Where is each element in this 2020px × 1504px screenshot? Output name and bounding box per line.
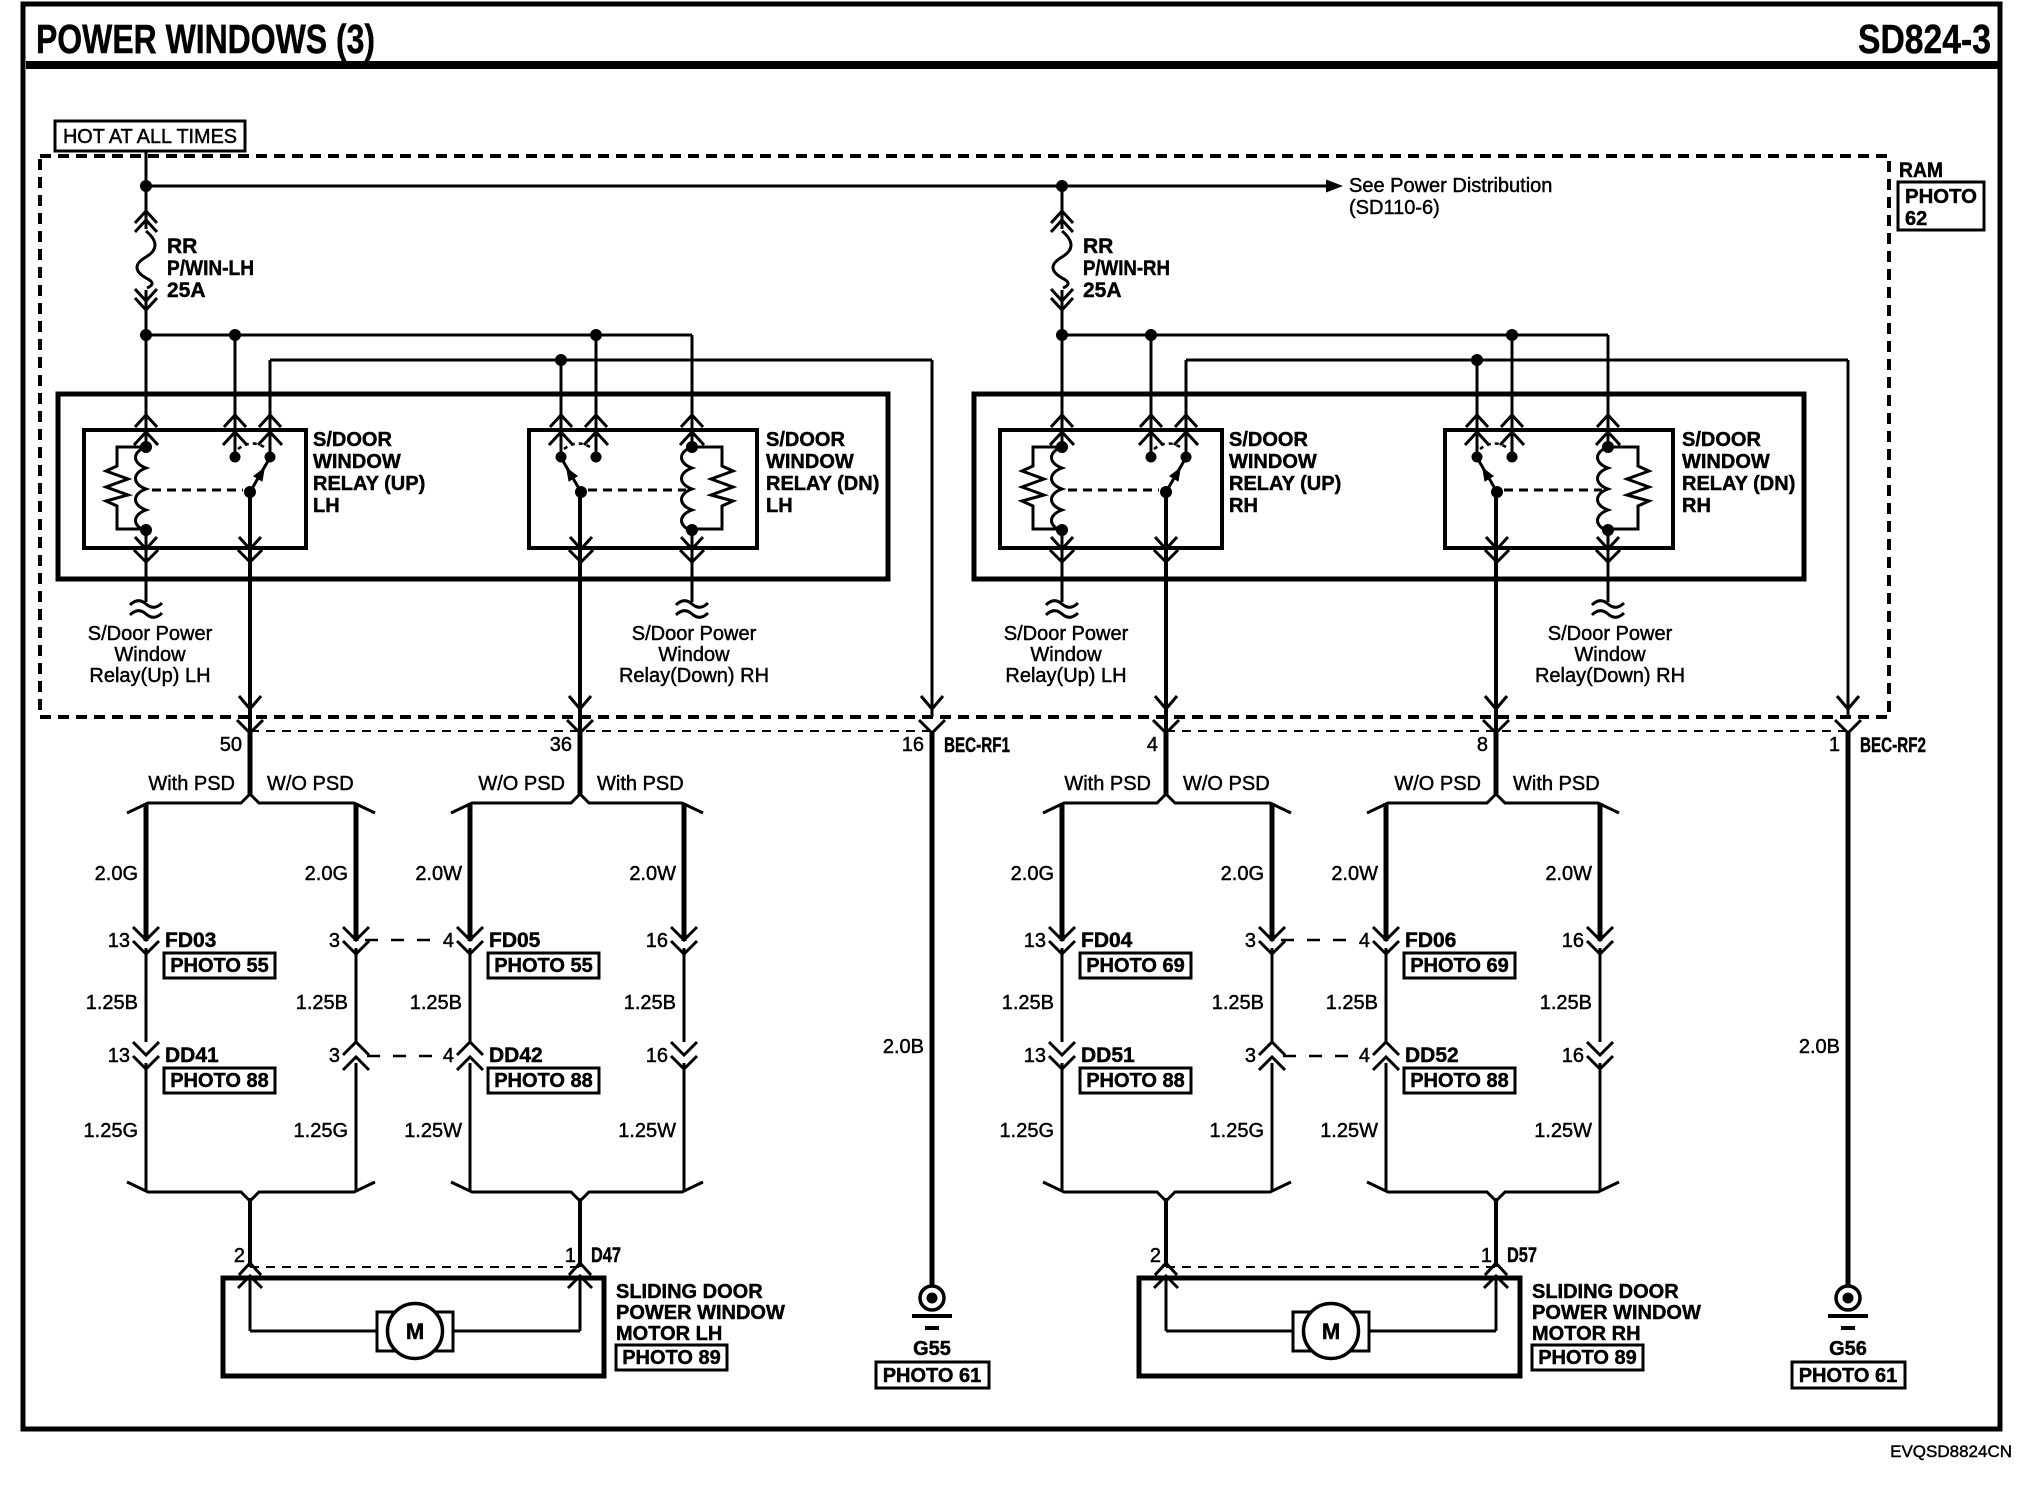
svg-text:2.0W: 2.0W — [629, 863, 676, 885]
svg-text:DD41: DD41 — [165, 1044, 219, 1067]
connector pin 16 — [1562, 927, 1613, 954]
connector mating dashed link (DD row) — [1283, 1055, 1357, 1058]
wire 1.25W (left) — [1320, 1063, 1386, 1192]
svg-text:EVQSD8824CN: EVQSD8824CN — [1890, 1442, 2012, 1461]
svg-text:DD52: DD52 — [1405, 1044, 1459, 1067]
svg-text:P/WIN-LH: P/WIN-LH — [167, 257, 254, 280]
wire 1.25G (right) — [1210, 1063, 1272, 1192]
svg-text:POWER WINDOWS (3): POWER WINDOWS (3) — [36, 16, 375, 62]
svg-text:W/O PSD: W/O PSD — [267, 773, 354, 795]
svg-text:BEC-RF1: BEC-RF1 — [944, 734, 1010, 757]
photo ref PHOTO 61 — [1792, 1362, 1905, 1388]
wire 2.0W (left) — [1331, 803, 1386, 941]
svg-text:M: M — [1322, 1319, 1340, 1344]
photo ref PHOTO 88 — [488, 1068, 599, 1093]
wire to relay contacts RH — [1151, 335, 1512, 457]
switch fixed contacts — [1146, 444, 1192, 463]
svg-text:D47: D47 — [591, 1244, 621, 1267]
svg-text:With PSD: With PSD — [148, 773, 235, 795]
photo ref PHOTO 62 — [1898, 182, 1984, 230]
svg-text:S/DOOR: S/DOOR — [1229, 429, 1308, 451]
svg-text:WINDOW: WINDOW — [1682, 451, 1770, 473]
svg-text:FD03: FD03 — [165, 929, 216, 952]
wire 1.25B (left) — [86, 948, 146, 1042]
photo ref PHOTO 61 — [876, 1362, 989, 1388]
svg-text:S/Door Power: S/Door Power — [632, 623, 757, 645]
relay label — [1229, 429, 1341, 517]
connector FD06 pin 4 — [1359, 927, 1456, 954]
connector pin 16 (2) — [1562, 1042, 1613, 1069]
svg-text:4: 4 — [1147, 734, 1158, 756]
svg-text:PHOTO 69: PHOTO 69 — [1410, 955, 1509, 977]
wire 1.25B (right) — [1212, 948, 1272, 1042]
svg-text:2.0W: 2.0W — [415, 863, 462, 885]
junction — [140, 329, 602, 341]
coil ground squiggle (DN relay) — [1592, 530, 1624, 617]
svg-text:2.0G: 2.0G — [305, 863, 348, 885]
svg-text:PHOTO 69: PHOTO 69 — [1086, 955, 1185, 977]
svg-text:2.0B: 2.0B — [883, 1036, 924, 1058]
junction — [1056, 329, 1518, 341]
relay resistor — [106, 447, 146, 529]
svg-text:1.25B: 1.25B — [1326, 992, 1378, 1014]
title POWER WINDOWS (3) — [36, 16, 375, 62]
wire to motor — [578, 1198, 582, 1267]
svg-text:1: 1 — [1829, 734, 1840, 756]
svg-text:1: 1 — [565, 1245, 576, 1267]
svg-text:Relay(Down) RH: Relay(Down) RH — [619, 665, 769, 687]
merge fork — [1367, 1182, 1619, 1201]
svg-text:1.25W: 1.25W — [1534, 1120, 1592, 1142]
branch labels With PSD/W/O PSD — [1064, 773, 1269, 795]
svg-text:BEC-RF2: BEC-RF2 — [1860, 734, 1926, 757]
switch fixed contacts — [1472, 444, 1518, 463]
svg-text:WINDOW: WINDOW — [313, 451, 401, 473]
svg-text:P/WIN-RH: P/WIN-RH — [1083, 257, 1170, 280]
svg-text:W/O PSD: W/O PSD — [478, 773, 565, 795]
connector pin 3 (2) — [1245, 1042, 1285, 1070]
svg-text:MOTOR RH: MOTOR RH — [1532, 1323, 1641, 1345]
wire 1.25G (left) — [1000, 1063, 1062, 1192]
svg-text:M: M — [406, 1319, 424, 1344]
svg-text:1.25B: 1.25B — [86, 992, 138, 1014]
relay module box RH — [974, 394, 1804, 579]
svg-text:SD824-3: SD824-3 — [1858, 16, 1991, 62]
svg-text:DD42: DD42 — [489, 1044, 543, 1067]
svg-text:S/Door Power: S/Door Power — [1548, 623, 1673, 645]
svg-text:2.0G: 2.0G — [1221, 863, 1264, 885]
switch arm — [1479, 461, 1503, 498]
svg-text:FD06: FD06 — [1405, 929, 1456, 952]
pin pass-through arrows (top) — [549, 415, 704, 445]
svg-text:With PSD: With PSD — [1064, 773, 1151, 795]
svg-text:RELAY (DN): RELAY (DN) — [766, 473, 879, 495]
svg-text:Relay(Up) LH: Relay(Up) LH — [89, 665, 210, 687]
svg-text:S/DOOR: S/DOOR — [766, 429, 845, 451]
arrow to See Power Distribution — [1326, 180, 1343, 193]
relay coil — [682, 441, 699, 536]
connector FD05 pin 4 — [443, 927, 541, 954]
svg-text:RELAY (UP): RELAY (UP) — [313, 473, 425, 495]
connector FD03 pin 13 — [108, 927, 217, 954]
connector strip dashed line (RH) — [1166, 730, 1848, 732]
relay label — [1682, 429, 1795, 517]
svg-text:8: 8 — [1477, 734, 1488, 756]
svg-text:G55: G55 — [913, 1338, 951, 1360]
svg-text:13: 13 — [1024, 1045, 1046, 1067]
connector DD51 pin 13 — [1024, 1042, 1135, 1069]
coil ground squiggle (UP relay) — [1046, 530, 1078, 617]
photo ref PHOTO 88 — [1404, 1068, 1515, 1093]
merge fork — [451, 1182, 703, 1201]
wire to relay contact RH — [1476, 360, 1479, 457]
photo ref PHOTO 55 — [488, 953, 599, 978]
svg-text:G56: G56 — [1829, 1338, 1867, 1360]
svg-text:36: 36 — [550, 734, 572, 756]
split fork — [1043, 794, 1291, 813]
svg-text:1.25W: 1.25W — [404, 1120, 462, 1142]
svg-text:1.25B: 1.25B — [624, 992, 676, 1014]
wire relay pivot to connector (DN) — [1494, 492, 1498, 733]
connector D57 pin 2 — [1150, 1245, 1178, 1288]
photo ref PHOTO 55 — [164, 953, 275, 978]
wire from HOT AT ALL TIMES — [145, 150, 148, 187]
connector name BEC-RF2 — [1860, 734, 1926, 757]
connector pin 50 — [220, 696, 263, 756]
svg-text:13: 13 — [108, 1045, 130, 1067]
svg-text:1.25W: 1.25W — [1320, 1120, 1378, 1142]
wire to motor — [1494, 1198, 1498, 1267]
connector FD04 pin 13 — [1024, 927, 1133, 954]
relay box S/DOOR WINDOW RELAY (DN) RH — [1445, 430, 1673, 548]
svg-text:1.25B: 1.25B — [410, 992, 462, 1014]
svg-text:2.0W: 2.0W — [1545, 863, 1592, 885]
svg-text:1.25B: 1.25B — [296, 992, 348, 1014]
connector DD42 pin 4 — [443, 1042, 543, 1070]
photo ref PHOTO 69 — [1404, 953, 1515, 978]
svg-text:PHOTO 61: PHOTO 61 — [1799, 1365, 1898, 1387]
wire to relay contacts LH — [235, 335, 596, 457]
wire 2.0G (left) — [1011, 803, 1062, 941]
page code SD824-3 — [1858, 16, 1991, 62]
svg-text:1.25G: 1.25G — [294, 1120, 348, 1142]
svg-text:16: 16 — [902, 734, 924, 756]
branch labels With PSD/W/O PSD — [148, 773, 353, 795]
svg-text:62: 62 — [1905, 208, 1927, 230]
connector pin 3 — [1245, 927, 1285, 954]
wire 1.25B (right) — [624, 948, 684, 1042]
svg-text:50: 50 — [220, 734, 242, 756]
wire 1.25B (right) — [296, 948, 356, 1042]
svg-text:SLIDING DOOR: SLIDING DOOR — [616, 1281, 763, 1303]
relay resistor — [692, 447, 733, 529]
svg-text:W/O PSD: W/O PSD — [1394, 773, 1481, 795]
wire to motor — [1164, 1198, 1168, 1267]
motor label RH — [1532, 1281, 1701, 1345]
svg-text:2.0W: 2.0W — [1331, 863, 1378, 885]
drawing code EVQSD8824CN — [1890, 1442, 2012, 1461]
coil ground squiggle (DN relay) — [676, 530, 708, 617]
svg-text:2: 2 — [234, 1245, 245, 1267]
ground G56 symbol — [1828, 733, 1868, 1328]
wire 2.0W (left) — [415, 803, 470, 941]
photo ref PHOTO 89 — [616, 1345, 727, 1370]
motor label LH — [616, 1281, 785, 1345]
pin pass-through arrows (top) — [1050, 415, 1198, 445]
ground label G56 — [1829, 1338, 1867, 1360]
svg-text:PHOTO 88: PHOTO 88 — [170, 1070, 269, 1092]
svg-text:W/O PSD: W/O PSD — [1183, 773, 1270, 795]
switch fixed contacts — [230, 444, 276, 463]
svg-text:2.0G: 2.0G — [1011, 863, 1054, 885]
svg-text:RH: RH — [1229, 495, 1258, 517]
svg-text:S/DOOR: S/DOOR — [1682, 429, 1761, 451]
relay actuation dashed link — [152, 489, 243, 492]
bus line RH (upper) — [1062, 335, 1608, 447]
split fork — [1367, 794, 1619, 813]
switch arm — [244, 461, 268, 498]
relay actuation dashed link — [1068, 489, 1159, 492]
relay coil — [136, 441, 153, 536]
svg-text:1.25G: 1.25G — [84, 1120, 138, 1142]
svg-text:FD04: FD04 — [1081, 929, 1133, 952]
svg-text:13: 13 — [1024, 930, 1046, 952]
svg-text:DD51: DD51 — [1081, 1044, 1135, 1067]
svg-text:Window: Window — [658, 644, 730, 666]
svg-text:PHOTO 61: PHOTO 61 — [883, 1365, 982, 1387]
pin pass-through arrows (bottom) — [1050, 537, 1178, 562]
svg-text:Window: Window — [114, 644, 186, 666]
motor SLIDING DOOR POWER WINDOW MOTOR RH — [1139, 1278, 1520, 1376]
wire 1.25B (left) — [410, 948, 470, 1042]
connector pin 3 (2) — [329, 1042, 369, 1070]
wire relay pivot to connector (UP) — [1164, 492, 1168, 733]
svg-text:RH: RH — [1682, 495, 1711, 517]
See Power Distribution note — [1349, 175, 1552, 219]
svg-text:FD05: FD05 — [489, 929, 541, 952]
svg-text:See Power Distribution: See Power Distribution — [1349, 175, 1552, 197]
svg-text:4: 4 — [443, 930, 454, 952]
node label S/Door Power Window Relay(Down) RH — [619, 623, 769, 687]
merge fork — [1043, 1182, 1291, 1201]
photo ref PHOTO 89 — [1532, 1345, 1643, 1370]
fuse RR P/WIN-LH 25A — [135, 186, 254, 335]
bus line LH (upper) — [146, 335, 692, 447]
svg-text:PHOTO 55: PHOTO 55 — [494, 955, 593, 977]
svg-text:RELAY (DN): RELAY (DN) — [1682, 473, 1795, 495]
connector pin 36 — [550, 696, 593, 756]
svg-text:WINDOW: WINDOW — [1229, 451, 1317, 473]
svg-text:Window: Window — [1030, 644, 1102, 666]
svg-text:With PSD: With PSD — [597, 773, 684, 795]
connector pin 4 — [1147, 696, 1179, 756]
relay label — [313, 429, 425, 517]
connector mating dashed link (DD row) — [367, 1055, 441, 1058]
svg-text:PHOTO 55: PHOTO 55 — [170, 955, 269, 977]
photo ref PHOTO 88 — [1080, 1068, 1191, 1093]
svg-text:PHOTO 89: PHOTO 89 — [1538, 1347, 1637, 1369]
svg-text:2.0G: 2.0G — [95, 863, 138, 885]
svg-text:2.0B: 2.0B — [1799, 1036, 1840, 1058]
photo ref PHOTO 69 — [1080, 953, 1191, 978]
motor SLIDING DOOR POWER WINDOW MOTOR LH — [223, 1278, 604, 1376]
relay coil — [1052, 441, 1069, 536]
svg-text:SLIDING DOOR: SLIDING DOOR — [1532, 1281, 1679, 1303]
svg-text:1.25B: 1.25B — [1212, 992, 1264, 1014]
svg-text:D57: D57 — [1507, 1244, 1537, 1267]
svg-text:16: 16 — [646, 1045, 668, 1067]
switch arm — [1160, 461, 1184, 498]
svg-text:16: 16 — [646, 930, 668, 952]
switch arm — [563, 461, 587, 498]
pin pass-through arrows (bottom) — [569, 537, 704, 562]
wire from connector to split — [1164, 733, 1169, 795]
connector name BEC-RF1 — [944, 734, 1010, 757]
connector pin 3 — [329, 927, 369, 954]
svg-text:25A: 25A — [1083, 279, 1122, 302]
wire from connector to split — [248, 733, 253, 795]
wire 2.0G (right) — [305, 803, 356, 941]
connector pin 8 — [1477, 696, 1509, 756]
wire from connector to split — [1494, 733, 1499, 795]
svg-text:WINDOW: WINDOW — [766, 451, 854, 473]
relay coil — [1598, 441, 1615, 536]
svg-text:S/Door Power: S/Door Power — [1004, 623, 1129, 645]
branch labels W/O PSD/With PSD — [478, 773, 683, 795]
svg-text:3: 3 — [329, 1045, 340, 1067]
wire 1.25W (right) — [1534, 1063, 1600, 1192]
svg-text:4: 4 — [1359, 930, 1370, 952]
svg-text:3: 3 — [1245, 930, 1256, 952]
relay box S/DOOR WINDOW RELAY (DN) LH — [529, 430, 757, 548]
wire 2.0W (right) — [1545, 803, 1600, 941]
connector D47 pin 2 — [234, 1245, 262, 1288]
relay actuation dashed link — [588, 489, 686, 492]
connector DD52 pin 4 — [1359, 1042, 1459, 1070]
junction — [1056, 180, 1068, 192]
merge fork — [127, 1182, 375, 1201]
svg-text:(SD110-6): (SD110-6) — [1349, 197, 1440, 219]
title separator line — [26, 61, 1998, 69]
svg-text:25A: 25A — [167, 279, 206, 302]
wire 1.25W (right) — [618, 1063, 684, 1192]
wire 1.25B (left) — [1326, 948, 1386, 1042]
svg-text:13: 13 — [108, 930, 130, 952]
connector strip dashed line (LH) — [250, 730, 932, 732]
wire to motor — [248, 1198, 252, 1267]
relay box S/DOOR WINDOW RELAY (UP) LH — [84, 430, 306, 548]
connector DD41 pin 13 — [108, 1042, 219, 1069]
junction — [555, 354, 567, 366]
svg-text:1.25B: 1.25B — [1002, 992, 1054, 1014]
wire from connector to split — [578, 733, 583, 795]
connector mating dashed link (FD row) — [1281, 939, 1357, 942]
relay box S/DOOR WINDOW RELAY (UP) RH — [1000, 430, 1222, 548]
connector D47 pin 1 — [565, 1244, 621, 1288]
switch fixed contacts — [556, 444, 602, 463]
svg-text:PHOTO 88: PHOTO 88 — [1410, 1070, 1509, 1092]
wire 1.25B (left) — [1002, 948, 1062, 1042]
junction — [1471, 354, 1483, 366]
pin pass-through arrows (bottom) — [134, 537, 262, 562]
relay module box LH — [58, 394, 888, 579]
connector D57 pin 1 — [1481, 1244, 1537, 1288]
ground G55 symbol — [912, 733, 952, 1328]
wire 2.0G (right) — [1221, 803, 1272, 941]
split fork — [127, 794, 375, 813]
svg-text:RR: RR — [1083, 235, 1113, 258]
svg-text:1.25W: 1.25W — [618, 1120, 676, 1142]
coil ground squiggle (UP relay) — [130, 530, 162, 617]
svg-text:RAM: RAM — [1899, 159, 1943, 182]
HOT AT ALL TIMES label — [55, 121, 245, 151]
bus line RH (lower) — [1186, 360, 1848, 717]
connector pin 16 — [646, 927, 697, 954]
connector mating dashed link (FD row) — [365, 939, 441, 942]
wire 2.0W (right) — [629, 803, 684, 941]
wire 2.0G (left) — [95, 803, 146, 941]
connector pin 16 (2) — [646, 1042, 697, 1069]
svg-text:PHOTO 89: PHOTO 89 — [622, 1347, 721, 1369]
pin pass-through arrows (top) — [134, 415, 282, 445]
svg-text:MOTOR LH: MOTOR LH — [616, 1323, 722, 1345]
svg-text:1.25G: 1.25G — [1210, 1120, 1264, 1142]
svg-text:HOT AT ALL TIMES: HOT AT ALL TIMES — [63, 126, 237, 148]
svg-text:1.25B: 1.25B — [1540, 992, 1592, 1014]
relay actuation dashed link — [1504, 489, 1602, 492]
wire relay pivot to connector (DN) — [578, 492, 582, 733]
svg-text:POWER WINDOW: POWER WINDOW — [616, 1302, 785, 1324]
split fork — [451, 794, 703, 813]
node label S/Door Power Window Relay(Up) LH (right) — [1004, 623, 1129, 687]
svg-text:Relay(Down) RH: Relay(Down) RH — [1535, 665, 1685, 687]
connector pin 16 — [902, 696, 945, 756]
RAM dashed box — [40, 156, 1889, 717]
svg-text:1: 1 — [1481, 1245, 1492, 1267]
svg-text:With PSD: With PSD — [1513, 773, 1600, 795]
svg-text:S/DOOR: S/DOOR — [313, 429, 392, 451]
svg-text:RELAY (UP): RELAY (UP) — [1229, 473, 1341, 495]
wire relay pivot to connector (UP) — [248, 492, 252, 733]
svg-text:PHOTO 88: PHOTO 88 — [494, 1070, 593, 1092]
svg-text:RR: RR — [167, 235, 197, 258]
RAM label — [1899, 159, 1943, 182]
svg-text:3: 3 — [329, 930, 340, 952]
wire 2.0B label (LH) — [883, 1036, 924, 1058]
connector D47 dashed line — [250, 1266, 580, 1268]
svg-text:3: 3 — [1245, 1045, 1256, 1067]
power bus wire — [146, 185, 1326, 188]
wire from fuse to relay RH — [1061, 335, 1064, 447]
svg-text:PHOTO 88: PHOTO 88 — [1086, 1070, 1185, 1092]
wire to relay contact LH — [560, 360, 563, 457]
svg-text:2: 2 — [1150, 1245, 1161, 1267]
wire 1.25W (left) — [404, 1063, 470, 1192]
wire 2.0B label (RH) — [1799, 1036, 1840, 1058]
svg-text:LH: LH — [766, 495, 793, 517]
svg-text:LH: LH — [313, 495, 340, 517]
svg-text:16: 16 — [1562, 930, 1584, 952]
relay label — [766, 429, 879, 517]
wire 1.25G (right) — [294, 1063, 356, 1192]
junction — [140, 180, 152, 192]
connector pin 1 — [1829, 696, 1861, 756]
wire 1.25G (left) — [84, 1063, 146, 1192]
branch labels W/O PSD/With PSD — [1394, 773, 1599, 795]
svg-text:Window: Window — [1574, 644, 1646, 666]
connector D57 dashed line — [1166, 1266, 1496, 1268]
svg-text:Relay(Up) LH: Relay(Up) LH — [1005, 665, 1126, 687]
